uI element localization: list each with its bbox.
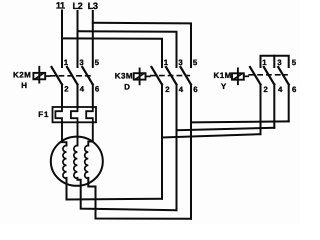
K2M mechanical linkage (dashed) [51,75,92,77]
svg-text:3: 3 [178,58,183,67]
svg-text:6: 6 [292,85,297,94]
K1M pole 5 bottom lead [288,85,290,122]
svg-text:1: 1 [64,58,69,67]
K2M coil/drive symbol [33,67,49,83]
svg-text:5: 5 [292,58,297,67]
wire K3M pole5 to K1M pole5 [191,121,289,122]
K3M contact pole 1 blade [152,67,163,85]
svg-text:Y: Y [221,82,227,91]
svg-text:2: 2 [264,85,269,94]
motor winding 3 [85,146,89,179]
wire winding3 end to K3M pole3 bottom (W2 run) [88,178,191,219]
K1M contact pole 1 blade [250,67,261,85]
K1M contact pole 3 blade [264,67,275,85]
K1M contact pole 5 blade [278,67,289,85]
svg-text:3: 3 [79,58,84,67]
K3M mechanical linkage (dashed) [151,75,189,77]
K2M contact pole 1 blade [52,67,63,85]
wire L3 vertical [92,11,94,67]
svg-text:2: 2 [64,85,69,94]
wire L2 vertical [77,11,79,67]
wire L2 branch to K3M pole 3 [78,31,177,67]
svg-text:6: 6 [95,85,100,94]
svg-text:2: 2 [165,85,170,94]
K1M pole 3 bottom lead [273,85,275,128]
K2M contact pole 2 blade [67,67,78,85]
F1 heater element pole 1 [55,108,62,123]
svg-text:4: 4 [278,85,283,94]
svg-text:1: 1 [164,58,169,67]
motor M1 body circle [51,137,103,186]
svg-text:F1: F1 [38,110,49,119]
wire K3M pole3 to K1M pole3 [177,128,275,130]
K3M coil/drive symbol [134,69,150,85]
K3M pole 5 bottom lead [190,85,192,219]
svg-text:L2: L2 [72,1,82,11]
wire winding2 end to K3M pole2 bottom (V2 run) [77,178,176,210]
wire K3M pole1 to K1M pole1 [162,134,261,137]
wire winding1 end to K3M pole1 bottom (U2 run) [67,178,163,200]
K1M mechanical linkage (dashed) [249,74,287,76]
wire L3 branch to K3M pole 5 [93,23,191,67]
svg-text:1: 1 [262,58,267,67]
K3M pole 3 bottom lead [176,85,178,211]
wire L1 branch to K3M pole 1 [62,38,162,67]
F1 heater element pole 2 [71,108,78,123]
motor winding 2 [74,146,78,179]
K2M pole 1 bottom lead [61,85,63,108]
svg-text:11: 11 [56,1,65,11]
wire F1 pole3 to motor winding 3 [88,122,93,145]
svg-text:H: H [21,81,27,90]
svg-text:4: 4 [80,85,85,94]
svg-text:K2M: K2M [13,71,31,80]
svg-text:4: 4 [179,85,184,94]
svg-text:3: 3 [277,58,282,67]
K2M pole 2 bottom lead [77,85,79,108]
svg-text:K1M: K1M [214,71,232,80]
svg-text:L3: L3 [88,1,98,11]
K2M pole 3 bottom lead [92,85,94,108]
wire F1 pole2 to motor winding 2 [76,122,78,145]
svg-text:6: 6 [193,85,198,94]
K1M pole 1 bottom lead [260,85,262,135]
K1M bus middle stub [273,56,275,67]
K2M contact pole 3 blade [82,67,93,85]
F1 heater element pole 3 [86,108,93,123]
motor winding 1 [63,146,67,179]
svg-text:K3M: K3M [115,72,133,81]
K3M contact pole 3 blade [166,67,177,85]
K1M star-point bus bar [261,56,289,67]
wire L1 vertical [61,11,63,68]
K3M contact pole 5 blade [181,67,192,85]
F1 enclosure box [53,107,97,122]
wire F1 pole1 to motor winding 1 [62,122,67,145]
svg-text:D: D [124,82,130,91]
svg-text:5: 5 [95,58,100,67]
K3M pole 1 bottom lead [161,85,163,199]
K1M coil/drive symbol [232,68,248,84]
svg-text:5: 5 [193,58,198,67]
